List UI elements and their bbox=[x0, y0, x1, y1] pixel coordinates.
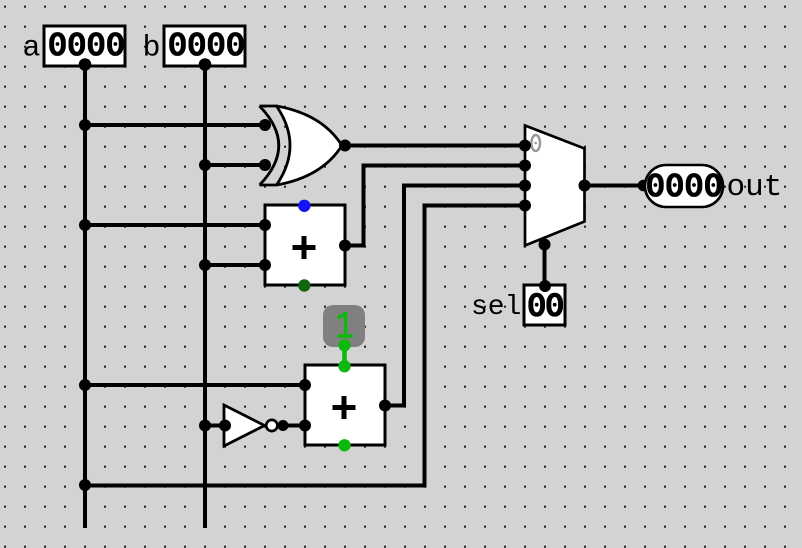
node a-adder U2 junction bbox=[79, 219, 91, 231]
wire a bus vertical bbox=[83, 65, 87, 528]
sel input pin bbox=[539, 280, 551, 292]
wire adder U2 output to mux input 1 bbox=[345, 166, 525, 246]
adder U3 output pin bbox=[379, 400, 391, 412]
wire b to not gate input bbox=[205, 424, 225, 428]
wire a to mux input 3 bbox=[85, 206, 525, 486]
multiplexer U5 bbox=[525, 126, 585, 246]
adder U2 output pin bbox=[339, 240, 351, 252]
input b pin bbox=[199, 58, 212, 71]
xor U1 input pin 2 bbox=[259, 159, 271, 171]
wire b to adder U2 input b bbox=[205, 263, 265, 267]
wire b to xor input 2 bbox=[205, 163, 265, 167]
svg-text:out: out bbox=[727, 170, 783, 205]
wire adder U3 output to mux input 2 bbox=[385, 186, 525, 406]
xor U1 input pin 1 bbox=[259, 119, 271, 131]
xor U1 output pin bbox=[339, 140, 351, 152]
adder U2 carry-in pin (high-Z) bbox=[298, 200, 310, 212]
not U4 input pin bbox=[219, 420, 231, 432]
adder U3 input pin a bbox=[299, 379, 311, 391]
adder U3 carry-out pin (high) bbox=[338, 439, 350, 451]
wire a to adder U3 input a bbox=[85, 383, 305, 387]
wire xor output to mux input 0 bbox=[345, 144, 525, 148]
not gate U4 bbox=[224, 405, 277, 446]
mux U5 input pin 2 bbox=[519, 180, 531, 192]
mux U5 input pin 1 bbox=[519, 160, 531, 172]
wire a to adder U2 input a bbox=[85, 223, 265, 227]
node b-adder U2 junction bbox=[199, 259, 211, 271]
node b-xor junction bbox=[199, 159, 211, 171]
wire b bus vertical bbox=[203, 65, 207, 528]
output out pin bbox=[638, 180, 650, 192]
mux U5 input pin 3 bbox=[519, 200, 531, 212]
adder U2 input pin a bbox=[259, 219, 271, 231]
svg-text:a: a bbox=[23, 32, 41, 66]
node b-not junction bbox=[199, 420, 211, 432]
mux U5 input pin 0 bbox=[519, 140, 531, 152]
wire mux output to out bbox=[585, 184, 645, 188]
input b box bbox=[164, 26, 245, 66]
node a-mux3 junction bbox=[79, 479, 91, 491]
wire constant to adder U3 carry-in (high) bbox=[342, 345, 347, 366]
adder U3 input pin b bbox=[299, 420, 311, 432]
xor gate U1 bbox=[260, 106, 343, 185]
adder U3 bbox=[305, 365, 385, 445]
not U4 output pin bbox=[278, 420, 289, 431]
node a-adder U3 junction bbox=[79, 379, 91, 391]
output out box bbox=[645, 165, 723, 207]
mux U5 output pin bbox=[579, 180, 591, 192]
wire a to xor input 1 bbox=[85, 123, 265, 127]
input a box bbox=[44, 26, 125, 66]
svg-text:sel: sel bbox=[471, 292, 521, 323]
input a pin bbox=[79, 58, 92, 71]
constant 1 bbox=[323, 305, 365, 347]
adder U2 bbox=[265, 205, 345, 285]
wire not gate output to adder U3 input b bbox=[278, 424, 305, 428]
adder U2 input pin b bbox=[259, 259, 271, 271]
sel input box bbox=[524, 285, 565, 325]
wire mux select to sel input bbox=[543, 240, 547, 285]
mux U5 select pin bbox=[539, 239, 551, 251]
svg-text:b: b bbox=[143, 32, 161, 66]
constant output pin (high) bbox=[338, 339, 350, 351]
adder U2 carry-out pin (low) bbox=[298, 279, 310, 291]
node a-xor junction bbox=[79, 119, 91, 131]
adder U3 carry-in pin (high) bbox=[338, 360, 350, 372]
